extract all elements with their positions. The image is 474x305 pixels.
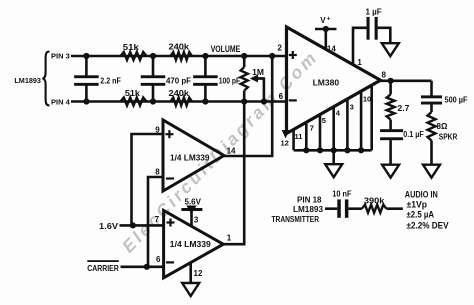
svg-text:12: 12	[194, 269, 203, 278]
svg-text:5: 5	[322, 116, 326, 125]
svg-text:7: 7	[310, 124, 314, 133]
svg-text:AUDIO IN: AUDIO IN	[405, 190, 438, 200]
svg-text:VOLUME: VOLUME	[211, 44, 241, 54]
svg-text:14: 14	[327, 45, 336, 54]
svg-text:10 nF: 10 nF	[332, 190, 351, 199]
svg-text:100 pF: 100 pF	[219, 76, 241, 86]
svg-text:3: 3	[350, 102, 354, 111]
svg-text:240k: 240k	[169, 42, 190, 52]
svg-text:3: 3	[194, 216, 199, 225]
svg-text:1 µF: 1 µF	[366, 8, 382, 17]
svg-text:1M: 1M	[252, 67, 264, 77]
svg-text:12: 12	[281, 139, 289, 148]
svg-text:PIN 18: PIN 18	[297, 195, 322, 204]
svg-text:4: 4	[336, 108, 341, 117]
svg-text:14: 14	[227, 147, 236, 156]
svg-text:LM1893: LM1893	[14, 78, 41, 85]
svg-text:1/4 LM339: 1/4 LM339	[170, 239, 211, 249]
svg-text:V: V	[320, 16, 326, 25]
svg-text:SPKR: SPKR	[439, 133, 458, 142]
svg-text:PIN 3: PIN 3	[51, 52, 70, 61]
svg-text:11: 11	[295, 132, 303, 141]
svg-text:LM380: LM380	[313, 77, 340, 87]
svg-text:8: 8	[155, 167, 160, 176]
svg-text:1: 1	[357, 58, 362, 67]
svg-text:1: 1	[227, 234, 232, 243]
svg-text:6: 6	[156, 255, 161, 264]
svg-text:+: +	[327, 15, 331, 22]
svg-text:10: 10	[363, 94, 371, 103]
svg-text:PIN 4: PIN 4	[51, 98, 71, 107]
svg-text:470 pF: 470 pF	[166, 76, 191, 86]
svg-text:7: 7	[155, 215, 160, 224]
svg-text:2: 2	[278, 44, 283, 53]
svg-text:390k: 390k	[364, 197, 385, 206]
svg-text:9: 9	[155, 126, 160, 135]
svg-text:2.2 nF: 2.2 nF	[100, 76, 121, 86]
svg-text:500 µF: 500 µF	[445, 96, 468, 105]
svg-text:5.6V: 5.6V	[185, 197, 202, 206]
svg-text:±2.2% DEV: ±2.2% DEV	[407, 221, 449, 231]
svg-text:8: 8	[382, 70, 387, 79]
svg-text:2.7: 2.7	[398, 103, 410, 113]
svg-text:±2.5 µA: ±2.5 µA	[407, 210, 435, 220]
svg-text:LM1893: LM1893	[293, 205, 324, 214]
svg-text:8Ω: 8Ω	[437, 122, 448, 131]
svg-text:0.1 µF: 0.1 µF	[403, 130, 424, 139]
svg-text:6: 6	[279, 92, 284, 101]
svg-text:1.6V: 1.6V	[99, 222, 119, 231]
svg-text:51k: 51k	[125, 88, 140, 98]
svg-text:TRANSMITTER: TRANSMITTER	[272, 215, 320, 224]
svg-text:1/4 LM339: 1/4 LM339	[170, 152, 210, 162]
svg-text:±1Vp: ±1Vp	[407, 199, 428, 209]
svg-text:CARRIER: CARRIER	[87, 264, 119, 273]
svg-text:51k: 51k	[123, 42, 139, 52]
svg-text:240k: 240k	[169, 88, 190, 98]
